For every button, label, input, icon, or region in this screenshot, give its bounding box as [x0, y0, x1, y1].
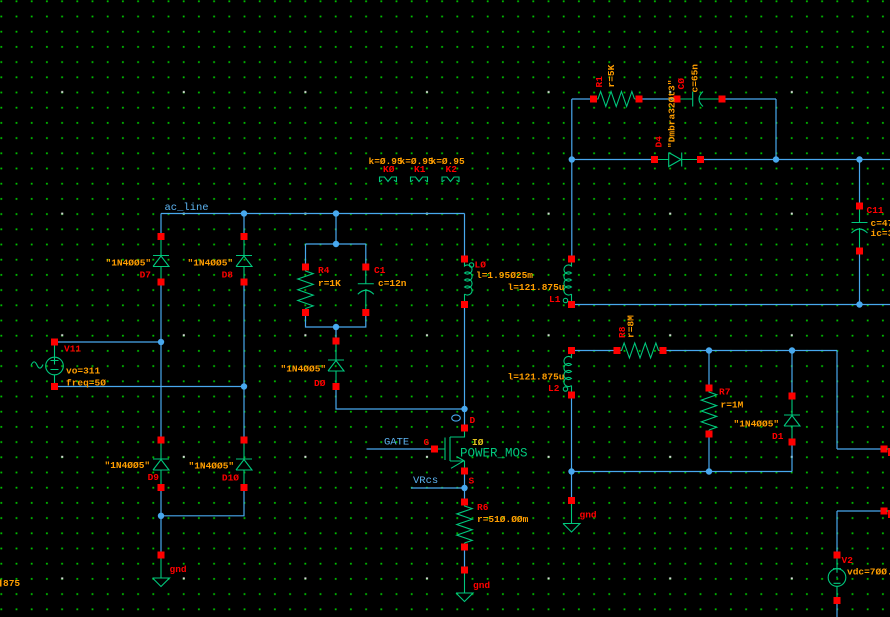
svg-text:c=65n: c=65n [690, 64, 701, 93]
svg-text:D1: D1 [772, 431, 784, 442]
capacitor C1 [358, 270, 374, 310]
inductor L1 [564, 262, 572, 302]
junction [333, 241, 339, 247]
label D9 [148, 472, 160, 483]
wire R1 to C0 [639, 98, 677, 100]
label L1 [549, 294, 561, 305]
junction [158, 339, 164, 345]
junction [706, 347, 712, 353]
value L1 l=121.875u [508, 282, 565, 293]
value k=0.95 K2 [431, 156, 466, 167]
svg-text:k=Ø.95: k=Ø.95 [369, 156, 404, 167]
resistor R7 [701, 391, 716, 431]
label V11 [64, 344, 81, 355]
junction [856, 156, 862, 162]
wire VRcs net [411, 487, 465, 489]
pin ground R6 [461, 567, 468, 574]
inductor L2 [564, 354, 572, 393]
resistor R8 [620, 343, 660, 358]
resistor R4 [298, 270, 313, 310]
pin D10 cathode [241, 437, 248, 444]
wire C11 bottom lead [859, 251, 861, 305]
svg-text:D8: D8 [222, 270, 234, 281]
ground left [153, 559, 170, 587]
diode D4 [658, 153, 697, 167]
wire output bottom bus [572, 304, 890, 306]
pin R4 top [302, 264, 309, 271]
value freq=50 [66, 378, 106, 389]
label K0 [383, 164, 395, 175]
wire L2 bottom to ground [571, 395, 573, 500]
svg-text:D1Ø: D1Ø [222, 473, 239, 484]
value r=5K [606, 64, 617, 87]
value r=1M [721, 400, 744, 411]
value r=1K [318, 278, 341, 289]
value ic=3 [871, 228, 890, 239]
svg-text:L2: L2 [548, 383, 560, 394]
svg-text:V2: V2 [842, 555, 854, 566]
svg-text:D: D [470, 415, 476, 426]
pin L0 top [461, 256, 468, 263]
svg-text:r=1K: r=1K [318, 278, 341, 289]
pin R6 top [461, 499, 468, 506]
pin stub upper [881, 446, 888, 453]
source V2 vdc [828, 559, 846, 598]
label L2 [548, 383, 560, 394]
value c=12n [378, 278, 407, 289]
pin C11 top [856, 203, 863, 210]
pin D1 cathode [789, 393, 796, 400]
wire D0 anode to drain node [336, 387, 465, 410]
pin stub lower [881, 508, 888, 515]
label ground left [170, 564, 187, 575]
label R6 [477, 502, 489, 513]
label C1 [374, 265, 386, 276]
diode D9 [153, 443, 169, 485]
value Dmbra320t3 [667, 80, 678, 148]
net label ac_line [165, 202, 209, 214]
label R1 [594, 76, 605, 88]
value r=510.00m [477, 514, 529, 525]
wire ac_line to D8 anode [243, 214, 245, 237]
pin D0 cathode [333, 338, 340, 345]
value vdc=700 [847, 567, 890, 578]
wire ac_line to R4/C1 tank [335, 214, 337, 245]
svg-text:R7: R7 [719, 387, 731, 398]
label K2 [446, 164, 458, 175]
svg-text:l=121.875u: l=121.875u [508, 372, 565, 383]
wire secondary return bus [572, 471, 793, 473]
diode D8 [236, 240, 252, 280]
pin D9 cathode [158, 437, 165, 444]
pin name G [424, 437, 430, 448]
svg-text:D4: D4 [654, 136, 665, 148]
pin D8 anode [241, 279, 248, 286]
value l=1.95025m [476, 270, 533, 281]
svg-text:D9: D9 [148, 472, 160, 483]
svg-text:ic=3ØØ: ic=3ØØ [871, 228, 890, 239]
pin C0 left [674, 96, 681, 103]
pin name D [470, 415, 476, 426]
svg-text:freq=5Ø: freq=5Ø [66, 378, 106, 389]
svg-text:gnd: gnd [473, 580, 490, 591]
value vo=311 [66, 366, 101, 377]
value r=8M [626, 315, 637, 338]
pin V2 minus [834, 597, 841, 604]
junction [789, 347, 795, 353]
pin L2 top [568, 347, 575, 354]
clipped label 875 [0, 578, 20, 589]
junction [461, 485, 467, 491]
svg-text:c=12n: c=12n [378, 278, 407, 289]
transistor M0 POWER_MOS [438, 432, 465, 469]
svg-text:LØ: LØ [475, 260, 487, 271]
pin M0 source [461, 468, 468, 475]
pin ground left [158, 552, 165, 559]
junction [241, 210, 247, 216]
pin C0 right [719, 96, 726, 103]
capacitor C11 [852, 209, 868, 248]
capacitor C0 [681, 92, 719, 107]
svg-text:vdc=7ØØ.Ø: vdc=7ØØ.Ø [847, 567, 890, 578]
svg-text:"1N4ØØ5": "1N4ØØ5" [188, 258, 234, 269]
wire R8 to right network [663, 351, 884, 450]
value D10 1N4005 [189, 461, 235, 472]
net label VRcs [413, 475, 438, 487]
svg-text:"Dmbra32Øt3": "Dmbra32Øt3" [667, 80, 678, 148]
svg-text:vo=311: vo=311 [66, 366, 101, 377]
pin M0 gate [431, 446, 438, 453]
svg-text:C11: C11 [867, 205, 884, 216]
wire snubber left vertical [571, 99, 573, 259]
pin L1 bottom [568, 301, 575, 308]
wire M0 source to R6 [464, 471, 466, 502]
svg-text:VRcs: VRcs [413, 475, 438, 487]
junction [706, 468, 712, 474]
pin R7 top [706, 385, 713, 392]
value D7 1N4005 [106, 258, 152, 269]
wire D8 cathode column [243, 282, 245, 440]
pin V2 plus [834, 552, 841, 559]
mutual inductor K1 [411, 177, 428, 182]
pin D1 anode [789, 439, 796, 446]
drain bubble [452, 415, 461, 421]
wire R6 to ground [464, 547, 466, 570]
svg-text:gnd: gnd [170, 564, 187, 575]
svg-text:r=8M: r=8M [626, 315, 637, 338]
pin C1 top [362, 264, 369, 271]
label K1 [414, 164, 426, 175]
svg-text:"1N4ØØ5": "1N4ØØ5" [189, 461, 235, 472]
wire D4 cathode bus to right edge [701, 159, 890, 161]
pin D4 cathode [697, 156, 704, 163]
label D0 [314, 378, 326, 389]
pin C1 bottom [362, 309, 369, 316]
svg-text:C1: C1 [374, 265, 386, 276]
label C0 [676, 78, 687, 90]
svg-text:r=1M: r=1M [721, 400, 744, 411]
pin V11 plus [51, 339, 58, 346]
label C11 [867, 205, 884, 216]
wire net ac_line horizontal [161, 213, 465, 215]
svg-text:GATE: GATE [384, 437, 409, 449]
polarity dot L2 [563, 387, 567, 391]
pin D0 anode [333, 383, 340, 390]
diode D10 [236, 443, 252, 485]
value c=4 [871, 218, 890, 229]
label D10 [222, 473, 239, 484]
label ground L2 [580, 510, 597, 521]
label POWER_MOS [460, 447, 528, 461]
svg-text:k=Ø.95: k=Ø.95 [431, 156, 466, 167]
svg-text:R6: R6 [477, 502, 489, 513]
wire R4/C1 bottom rail [306, 313, 366, 328]
svg-text:POWER_MOS: POWER_MOS [460, 447, 528, 461]
instance I0 [472, 437, 484, 448]
pin R1 right [636, 96, 643, 103]
wire tank to D0 cathode [335, 327, 337, 341]
wire L2 top to R8 [572, 350, 618, 352]
label R7 [719, 387, 731, 398]
svg-text:"1N4ØØ5": "1N4ØØ5" [106, 258, 152, 269]
value D1 1N4005 [734, 419, 780, 430]
value D9 1N4005 [105, 460, 151, 471]
diode D0 [328, 344, 344, 384]
wire V2 top stub [837, 511, 884, 555]
wire ac_line corner down to L0 [464, 214, 466, 260]
junction [241, 383, 247, 389]
svg-text:r=51Ø.ØØm: r=51Ø.ØØm [477, 514, 529, 525]
source V11 sine [31, 346, 63, 384]
value c=65n [690, 64, 701, 93]
svg-text:gnd: gnd [580, 510, 597, 521]
label V2 [842, 555, 854, 566]
wire R7 leads [708, 351, 710, 472]
pin C11 bottom [856, 248, 863, 255]
svg-text:r=5K: r=5K [606, 64, 617, 87]
junction [773, 156, 779, 162]
wire C11 top lead [859, 160, 861, 207]
pin D9 anode [158, 484, 165, 491]
wire ac_line to D7 anode [160, 214, 162, 237]
mutual inductor K2 [442, 177, 459, 182]
label D7 [140, 270, 152, 281]
junction [333, 210, 339, 216]
wire C0 to corner [722, 99, 776, 160]
svg-text:"1N4ØØ5": "1N4ØØ5" [281, 364, 327, 375]
mutual inductor K0 [380, 177, 397, 182]
inductor L0 [465, 262, 473, 302]
pin D8 cathode [241, 233, 248, 240]
label D1 [772, 431, 784, 442]
svg-text:D7: D7 [140, 270, 152, 281]
pin D10 anode [241, 484, 248, 491]
pin D4 anode [651, 156, 658, 163]
wire D7 cathode column [160, 282, 162, 440]
label D8 [222, 270, 234, 281]
pin R8 left [614, 347, 621, 354]
value k=0.95 K0 [369, 156, 404, 167]
junction [158, 513, 164, 519]
pin ground L2 [568, 497, 575, 504]
svg-text:k=Ø.95: k=Ø.95 [400, 156, 435, 167]
pin D7 anode [158, 279, 165, 286]
svg-text:R1: R1 [594, 76, 605, 88]
pin R8 right [660, 347, 667, 354]
pin name S [469, 476, 475, 487]
label R8 [617, 326, 628, 338]
svg-text:ac_line: ac_line [165, 202, 209, 214]
svg-text:CØ: CØ [676, 78, 687, 90]
pin D7 cathode [158, 233, 165, 240]
svg-text:L1: L1 [549, 294, 561, 305]
pin V11 minus [51, 383, 58, 390]
pin R7 bottom [706, 431, 713, 438]
wire R1 left lead [572, 98, 594, 100]
label ground R6 [473, 580, 490, 591]
wire V11 minus to node [55, 386, 245, 388]
wire D9 anode to ground node [160, 488, 162, 556]
value D8 1N4005 [188, 258, 234, 269]
junction [461, 406, 467, 412]
value D0 1N4005 [281, 364, 327, 375]
wire D1 leads [791, 351, 793, 472]
wire V2 bottom to edge [836, 601, 838, 617]
wire D10 anode to ground node [161, 488, 244, 516]
svg-text:V11: V11 [64, 344, 81, 355]
pin L1 top [568, 256, 575, 263]
wire R4/C1 top rail [306, 244, 366, 267]
pin M0 drain [461, 425, 468, 432]
ground L2 [563, 504, 580, 532]
junction [856, 301, 862, 307]
polarity dot L0 [469, 263, 473, 267]
junction [568, 468, 574, 474]
junction [333, 324, 339, 330]
svg-text:l=1.95Ø25m: l=1.95Ø25m [476, 270, 533, 281]
label R4 [318, 265, 330, 276]
svg-text:DØ: DØ [314, 378, 326, 389]
diode D1 [784, 399, 800, 439]
stub lower lead [887, 510, 890, 518]
svg-text:"1N4ØØ5": "1N4ØØ5" [105, 460, 151, 471]
svg-text:875: 875 [3, 578, 20, 589]
polarity dot L1 [563, 298, 567, 302]
resistor R6 [457, 505, 472, 544]
junction [569, 156, 575, 162]
value k=0.95 K1 [400, 156, 435, 167]
wire V11 plus to node [55, 341, 162, 343]
pin L2 bottom [568, 392, 575, 399]
svg-text:S: S [469, 476, 475, 487]
pin R6 bottom [461, 544, 468, 551]
label L0 [475, 260, 487, 271]
resistor R1 [597, 92, 637, 107]
value L2 l=121.875u [508, 372, 565, 383]
stub upper lead [887, 448, 890, 456]
svg-text:"1N4ØØ5": "1N4ØØ5" [734, 419, 780, 430]
wire node to D4 anode [572, 159, 655, 161]
pin R4 bottom [302, 309, 309, 316]
diode D7 [153, 240, 169, 280]
net label GATE [384, 437, 409, 449]
wire GATE net [367, 448, 435, 450]
svg-text:G: G [424, 437, 430, 448]
pin L0 bottom [461, 301, 468, 308]
svg-text:R4: R4 [318, 265, 330, 276]
label D4 [654, 136, 665, 148]
ground R6 [456, 574, 473, 602]
pin R1 left [590, 96, 597, 103]
svg-text:l=121.875u: l=121.875u [508, 282, 565, 293]
wire L0 bottom to M0 drain [464, 305, 466, 429]
